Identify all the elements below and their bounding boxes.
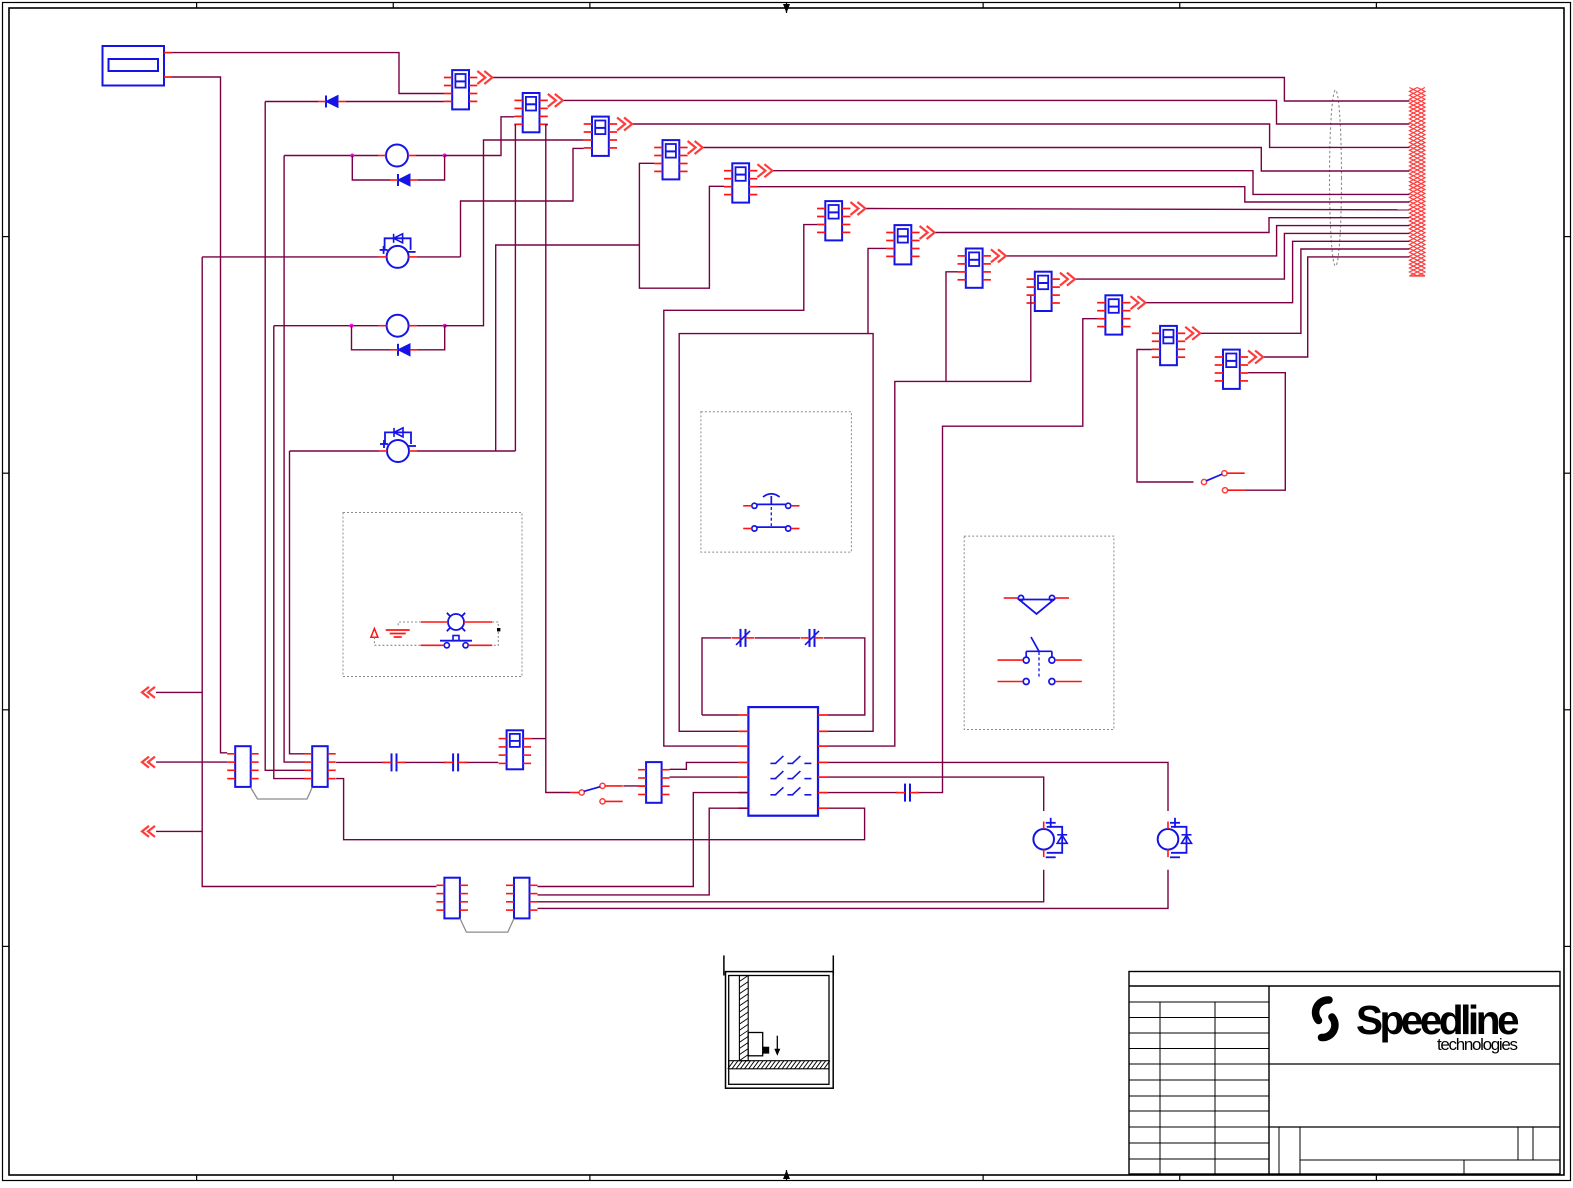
svg-text:technologies: technologies: [1437, 1035, 1518, 1054]
